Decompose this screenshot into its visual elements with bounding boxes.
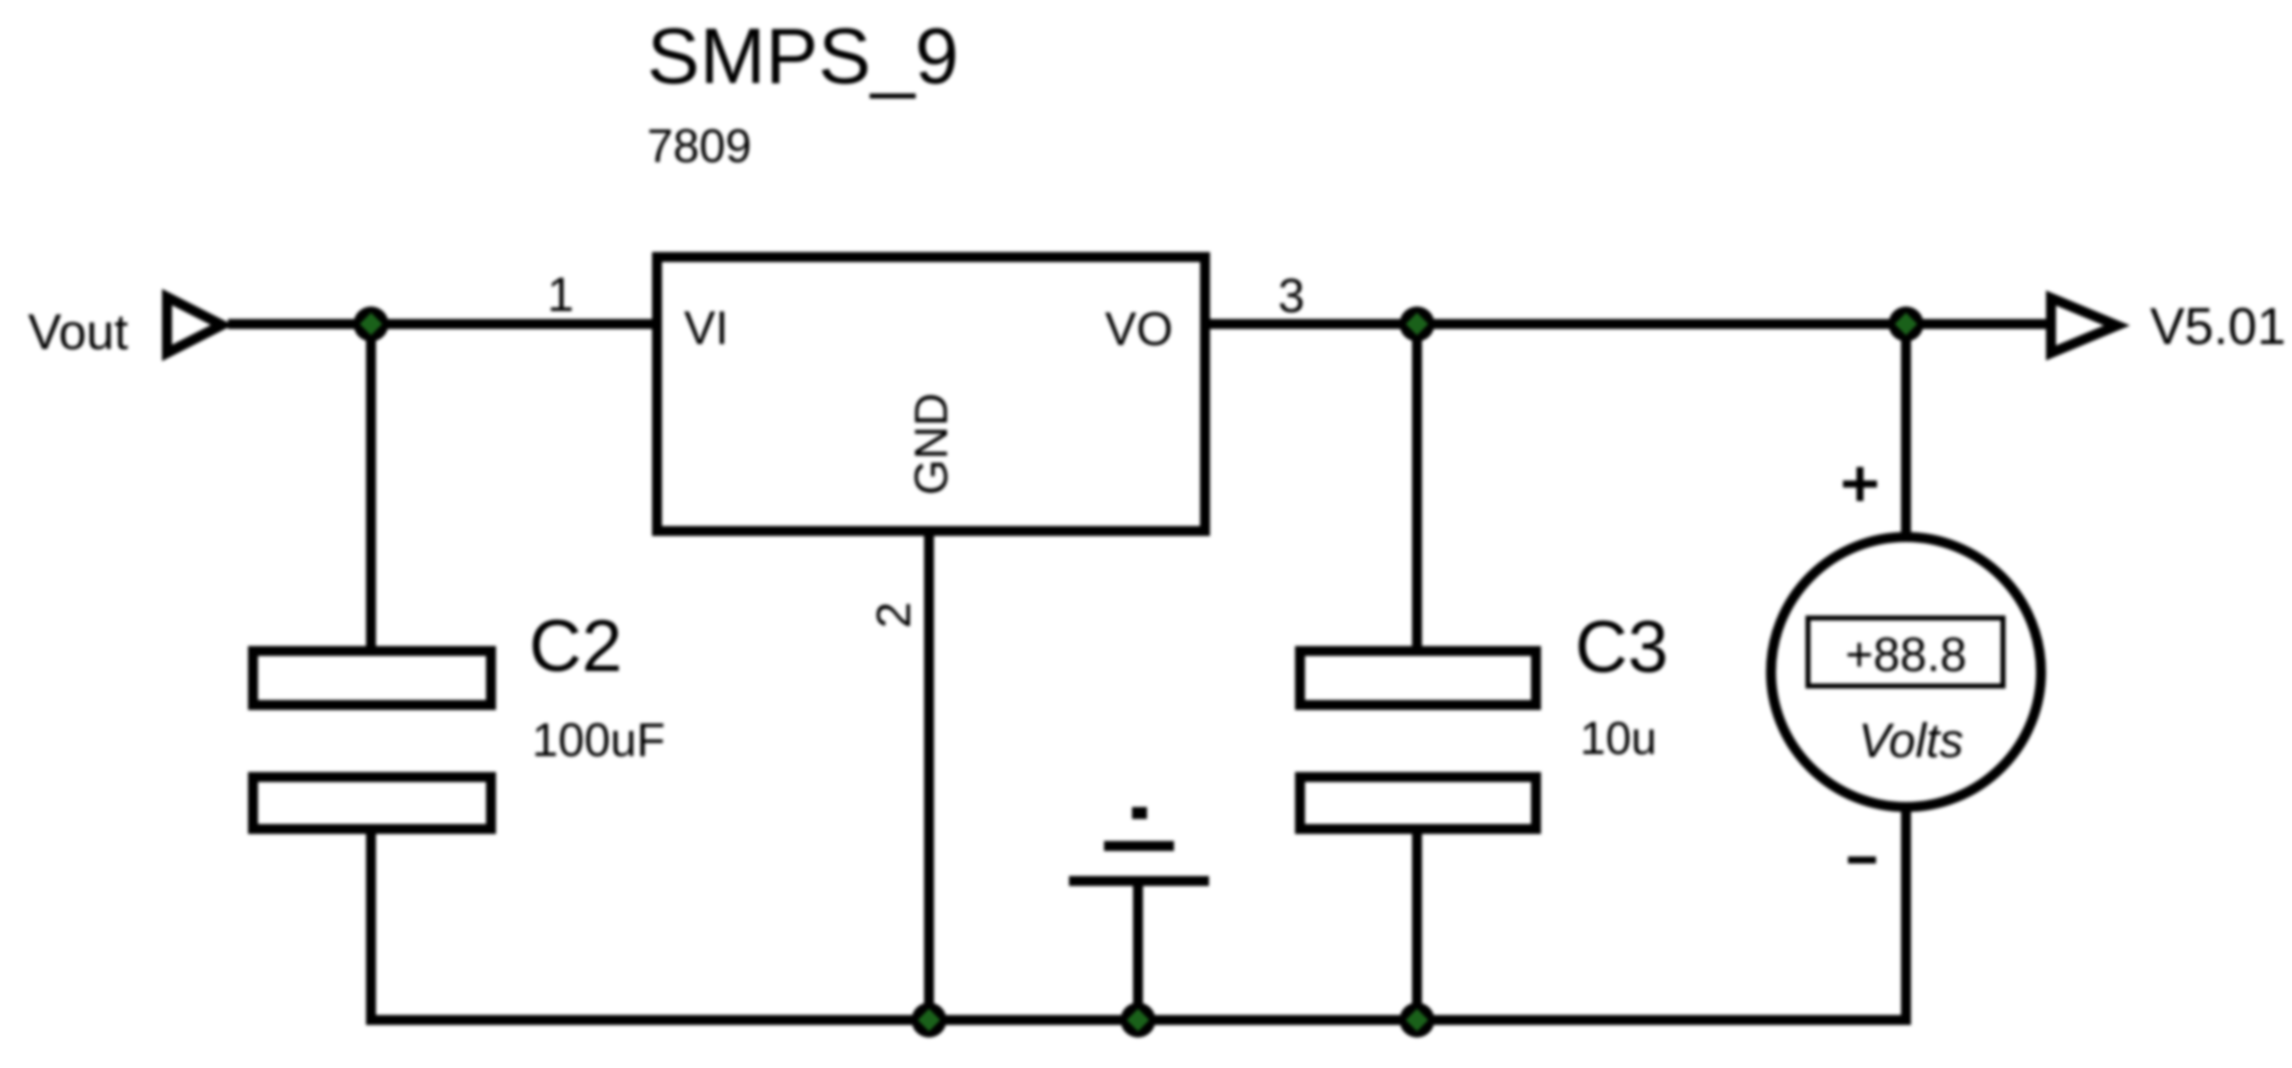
- svg-text:VI: VI: [684, 301, 728, 354]
- svg-text:+88.8: +88.8: [1845, 629, 1966, 682]
- svg-text:2: 2: [868, 602, 921, 629]
- junction J4: [912, 1003, 947, 1038]
- capacitor C3 top plate: [1300, 651, 1536, 705]
- svg-text:7809: 7809: [647, 119, 752, 172]
- ground bus wire: [366, 1015, 1911, 1025]
- svg-text:C3: C3: [1575, 607, 1668, 688]
- minus sign: [1848, 857, 1876, 864]
- svg-text:C2: C2: [529, 606, 622, 687]
- wire C3 to bus: [1412, 829, 1422, 1020]
- junction J1: [354, 307, 389, 342]
- ground stem to bus: [1133, 886, 1143, 1020]
- wire voltmeter to bus: [1901, 802, 1911, 1025]
- ground symbol dot: [1132, 807, 1147, 819]
- wire VO to output: [1205, 319, 2048, 329]
- regulator U1 box 7809: [657, 257, 1205, 531]
- svg-text:10u: 10u: [1580, 712, 1657, 764]
- capacitor C3 bottom plate: [1300, 777, 1536, 829]
- svg-text:Volts: Volts: [1859, 715, 1964, 768]
- svg-text:VO: VO: [1105, 302, 1173, 355]
- ground symbol long bar: [1069, 876, 1209, 886]
- svg-text:GND: GND: [905, 393, 957, 495]
- wire junction J3 down to voltmeter: [1901, 324, 1911, 542]
- svg-text:100uF: 100uF: [532, 713, 665, 766]
- svg-text:3: 3: [1278, 270, 1305, 323]
- wire GND pin 2: [924, 531, 934, 1020]
- svg-text:1: 1: [547, 269, 574, 322]
- input port arrow: [167, 297, 222, 353]
- capacitor C2 top plate: [253, 651, 491, 705]
- svg-text:SMPS_9: SMPS_9: [647, 11, 959, 100]
- ground symbol middle bar: [1104, 841, 1174, 851]
- svg-text:V5.01: V5.01: [2150, 298, 2286, 356]
- wire C2 to bus: [366, 829, 376, 1025]
- wire input to VI: [228, 319, 657, 329]
- capacitor C2 bottom plate: [253, 777, 491, 829]
- wire junction J1 down to C2: [366, 324, 376, 651]
- junction J3: [1889, 307, 1924, 342]
- junction J2: [1400, 307, 1435, 342]
- output port arrow: [2051, 298, 2117, 353]
- voltmeter M1 circle: [1771, 537, 2041, 807]
- voltmeter display rect: [1808, 618, 2003, 686]
- svg-text:Vout: Vout: [28, 304, 128, 360]
- junction J6: [1400, 1003, 1435, 1038]
- wire junction J2 down to C3: [1412, 324, 1422, 651]
- junction J5: [1121, 1003, 1156, 1038]
- plus sign: [1843, 481, 1877, 488]
